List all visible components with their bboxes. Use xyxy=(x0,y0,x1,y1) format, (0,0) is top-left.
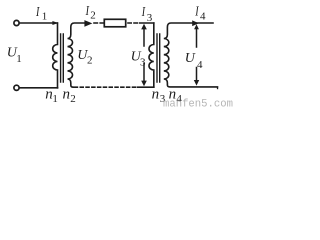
svg-text:1: 1 xyxy=(16,53,22,65)
label n1 xyxy=(45,86,58,105)
arrow: current I4 on top-right wire xyxy=(192,20,199,26)
svg-text:I: I xyxy=(35,3,40,19)
label U1 xyxy=(7,46,22,66)
transformer T1 core xyxy=(61,34,64,82)
svg-text:3: 3 xyxy=(140,56,146,68)
label n4 xyxy=(169,86,183,105)
label U3 xyxy=(131,49,146,68)
wire: top-left from terminal to T1 primary xyxy=(20,22,58,24)
wire: solid top into T2 primary xyxy=(140,22,154,24)
arrow: voltage U3 lower (points down to bottom wire) xyxy=(143,64,145,82)
wire: solid bottom into T2 primary xyxy=(138,86,154,88)
svg-text:3: 3 xyxy=(147,12,153,24)
label I2 xyxy=(85,2,96,21)
arrow: voltage U3 upper (points up to top wire) xyxy=(143,29,145,46)
svg-text:I: I xyxy=(141,3,146,19)
wire: bottom-right end tick xyxy=(216,87,218,89)
label I1 xyxy=(35,3,47,22)
svg-text:1: 1 xyxy=(52,93,58,105)
svg-text:2: 2 xyxy=(87,54,93,66)
arrow: current I2 on top wire xyxy=(84,20,92,27)
svg-text:n: n xyxy=(63,86,71,102)
svg-text:n: n xyxy=(152,86,160,102)
transformer T2 core xyxy=(157,34,160,82)
arrow: voltage U4 lower (points down to bottom wire) xyxy=(196,68,198,81)
transformer T2 primary winding n3 xyxy=(149,23,154,87)
wire: dashed line section right (top) xyxy=(128,22,140,24)
label n2 xyxy=(63,86,76,105)
arrow: current I1 on top-left wire xyxy=(52,21,58,25)
label n3 xyxy=(152,86,166,105)
arrow: voltage U4 upper (points up to top wire) xyxy=(196,29,198,48)
transformer T2 secondary winding n4 xyxy=(164,23,218,87)
svg-text:I: I xyxy=(85,2,90,18)
label I4 xyxy=(194,3,206,23)
svg-text:I: I xyxy=(194,3,199,19)
svg-text:4: 4 xyxy=(200,11,206,23)
label U2 xyxy=(77,48,92,67)
svg-text:U: U xyxy=(185,51,196,66)
wire: bottom-left from terminal to T1 primary xyxy=(20,87,58,89)
transformer T1 secondary winding n2 xyxy=(68,23,89,87)
transformer T1 primary winding n1 xyxy=(53,23,58,88)
svg-text:manfen5.com: manfen5.com xyxy=(163,99,233,110)
svg-text:2: 2 xyxy=(70,93,76,105)
svg-text:2: 2 xyxy=(90,10,96,22)
wire: dashed return line (bottom) xyxy=(75,86,138,88)
terminal: input bottom xyxy=(14,85,19,90)
wire: dashed line section left (top) xyxy=(94,22,104,24)
svg-text:4: 4 xyxy=(197,59,203,71)
label U4 xyxy=(185,51,203,71)
svg-text:1: 1 xyxy=(42,11,48,23)
resistor: transmission line box xyxy=(104,19,125,27)
label I3 xyxy=(141,3,153,24)
terminal: input top xyxy=(14,20,19,25)
